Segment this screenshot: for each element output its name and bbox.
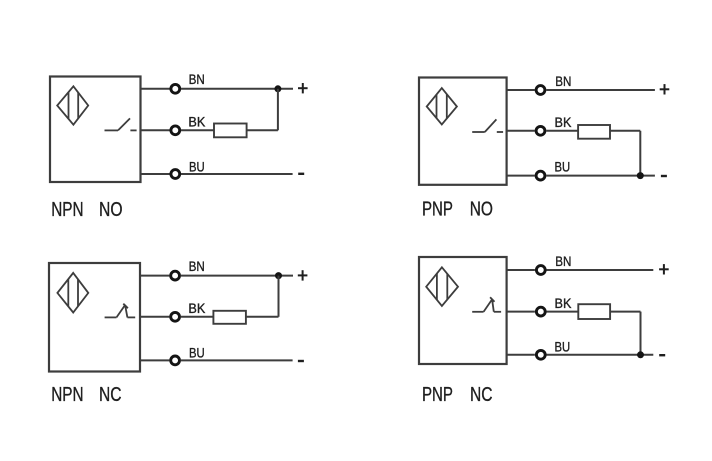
terminal BU — [536, 171, 545, 180]
svg-text:BU: BU — [555, 160, 571, 175]
svg-text:BN: BN — [555, 254, 571, 269]
svg-text:NPN: NPN — [51, 384, 83, 406]
wire BU from box — [507, 354, 535, 356]
svg-text:BU: BU — [555, 339, 571, 354]
wire BK from box — [141, 129, 170, 131]
terminal BN — [536, 86, 545, 95]
svg-text:BU: BU — [189, 346, 205, 361]
wire BU to - — [546, 175, 655, 177]
svg-text:BU: BU — [189, 159, 205, 174]
wire BN to + — [547, 269, 654, 271]
terminal BK — [536, 126, 545, 135]
wire BK from box — [507, 311, 535, 313]
sensor diamond symbol — [57, 273, 88, 313]
wire BN to + — [546, 89, 655, 91]
terminal BK — [171, 312, 180, 321]
terminal BU — [171, 356, 180, 365]
terminal BK — [536, 307, 545, 316]
- terminal — [661, 175, 667, 177]
terminal BK — [171, 126, 180, 135]
wire resistor to junction — [246, 316, 279, 318]
junction dot BU — [637, 351, 644, 358]
junction dot BN — [274, 85, 281, 92]
load resistor — [214, 124, 247, 138]
wire BN from box — [141, 88, 170, 90]
terminal BN — [171, 271, 180, 280]
wire BN from box — [507, 89, 535, 91]
wire BU from box — [141, 173, 170, 175]
svg-text:BK: BK — [188, 301, 205, 316]
terminal BU — [171, 170, 180, 179]
wire BU to - — [547, 354, 654, 356]
wire resistor to corner — [610, 311, 640, 313]
wire junction up to BN — [277, 89, 279, 131]
wire BN from box — [140, 275, 169, 277]
svg-text:PNP: PNP — [422, 198, 453, 220]
wire BU to - — [181, 359, 293, 361]
wire BK from box — [507, 130, 535, 132]
svg-text:BK: BK — [188, 114, 205, 129]
svg-text:BN: BN — [189, 259, 205, 274]
sensor diamond symbol — [57, 86, 88, 124]
wire BK to resistor — [546, 130, 578, 132]
load resistor — [578, 125, 610, 139]
NC switch contact — [105, 304, 136, 318]
terminal BN — [536, 266, 545, 275]
svg-text:BK: BK — [555, 296, 572, 311]
- terminal — [298, 173, 304, 175]
svg-text:NPN: NPN — [51, 199, 83, 221]
wire BU to - — [181, 173, 293, 175]
svg-text:NC: NC — [470, 384, 493, 406]
+ terminal — [660, 84, 670, 94]
terminal BU — [536, 350, 545, 359]
svg-text:NC: NC — [99, 384, 122, 406]
svg-text:BK: BK — [555, 115, 572, 130]
sensor box NPN NO — [50, 77, 141, 183]
sensor box NPN NC — [49, 263, 140, 372]
junction dot BU — [637, 172, 644, 179]
wire corner down to BU — [640, 312, 642, 355]
sensor box PNP NC — [419, 257, 507, 364]
sensor diamond symbol — [426, 267, 458, 306]
svg-text:BN: BN — [555, 74, 571, 89]
sensor box PNP NO — [419, 78, 507, 185]
wire BK to resistor — [547, 311, 579, 313]
svg-text:NO: NO — [99, 199, 123, 221]
wire BK from box — [140, 316, 169, 318]
- terminal — [659, 354, 665, 356]
- terminal — [298, 360, 304, 362]
+ terminal — [659, 264, 669, 274]
load resistor — [578, 304, 610, 319]
sensor diamond symbol — [427, 88, 457, 124]
svg-text:PNP: PNP — [422, 384, 453, 406]
NO switch contact — [472, 119, 503, 132]
terminal BN — [171, 84, 180, 93]
wire BK to resistor — [181, 316, 214, 318]
wire BN to + — [181, 275, 293, 277]
NO switch contact — [105, 118, 137, 130]
junction dot BN — [275, 272, 282, 279]
+ terminal — [298, 270, 308, 280]
load resistor — [213, 311, 246, 324]
wire BK to resistor — [181, 129, 214, 131]
+ terminal — [298, 83, 308, 93]
wire junction up to BN — [278, 276, 280, 317]
wire BU from box — [140, 359, 169, 361]
wire BN to + — [181, 88, 293, 90]
wire BU from box — [507, 175, 535, 177]
wire BN from box — [507, 269, 535, 271]
wire corner down to BU — [639, 131, 641, 176]
wire resistor to corner — [610, 130, 640, 132]
NC switch contact — [472, 297, 501, 312]
wire resistor to junction — [247, 129, 278, 131]
svg-text:NO: NO — [470, 198, 493, 220]
svg-text:BN: BN — [189, 72, 205, 87]
